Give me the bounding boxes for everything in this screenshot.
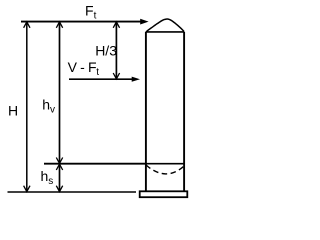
column inner level chord xyxy=(146,163,184,165)
column dome arc xyxy=(146,19,184,32)
force arrow F_t head xyxy=(140,19,148,25)
dashed scour curve xyxy=(146,165,184,174)
base plate xyxy=(140,191,188,197)
force arrow V - F_t xyxy=(69,77,140,82)
wire ground base line xyxy=(8,191,137,193)
column right edge xyxy=(183,32,185,191)
wire top level extension line xyxy=(21,21,141,23)
svg-text:H: H xyxy=(8,103,18,119)
wire intermediate level extension line xyxy=(44,163,146,165)
column left edge xyxy=(145,32,147,191)
dimension h_s vertical line xyxy=(56,164,62,192)
svg-text:H/3: H/3 xyxy=(95,43,117,59)
dimension H/3 vertical line xyxy=(113,22,119,80)
column top chord xyxy=(146,31,184,33)
dimension H vertical line xyxy=(24,22,30,192)
dimension h_v vertical line xyxy=(56,22,62,164)
